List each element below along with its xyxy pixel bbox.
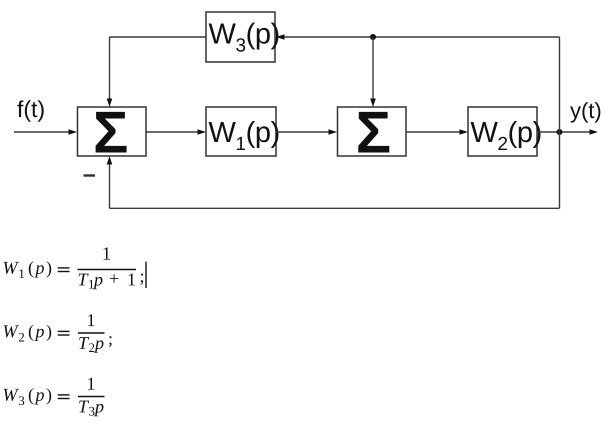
summing block U1 (left sigma)	[78, 107, 147, 156]
arrowhead into summer1 bottom	[107, 156, 113, 165]
arrowhead into W1 left	[198, 129, 207, 135]
arrowhead into summer1 top	[107, 99, 113, 108]
label f(t)	[17, 100, 43, 122]
wire feedback bottom left vertical up to summer1	[109, 163, 111, 209]
label minus sign	[84, 174, 96, 176]
label y(t)	[570, 102, 600, 123]
junction node top branch	[370, 34, 376, 40]
block W2(p)	[468, 107, 541, 156]
block W3(p)	[206, 12, 279, 62]
wire branch down to summer2	[372, 37, 374, 101]
wire feedback right vertical	[559, 37, 561, 208]
wire W2 to output y(t)	[537, 131, 590, 133]
formula W1(p) = 1/(T1p+1) ;	[4, 247, 146, 289]
summing block U2 (right sigma)	[338, 107, 407, 156]
arrowhead into W2 left	[460, 129, 469, 135]
block W1(p)	[206, 107, 279, 156]
arrowhead output	[590, 129, 599, 135]
wire input f(t) to summer1	[14, 131, 70, 133]
junction node at output	[557, 129, 563, 135]
arrowhead into W3 right	[276, 34, 285, 40]
wire W3 output left segment	[110, 36, 207, 38]
formula W2(p) = 1/(T2p) ;	[4, 314, 112, 353]
wire feedback top into W3	[281, 36, 560, 38]
arrowhead into summer2 left	[329, 129, 338, 135]
wire W3 output down to summer1 top	[109, 37, 111, 101]
arrowhead into summer1 left	[69, 129, 78, 135]
arrowhead into summer2 top	[370, 99, 376, 108]
wire W1 to summer2	[276, 131, 331, 133]
wire feedback bottom horizontal	[110, 207, 560, 209]
wire summer1 to W1	[146, 131, 200, 133]
wire summer2 to W2	[406, 131, 462, 133]
formula W3(p) = 1/(T3p)	[4, 378, 105, 417]
